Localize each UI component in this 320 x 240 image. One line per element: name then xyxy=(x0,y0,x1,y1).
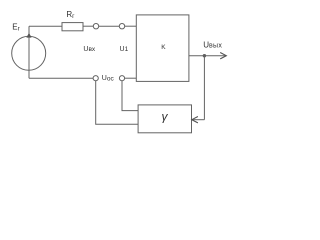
svg-text:Rг: Rг xyxy=(66,10,75,20)
svg-text:Uос: Uос xyxy=(102,75,115,82)
svg-text:Uвх: Uвх xyxy=(83,46,96,53)
svg-text:U1: U1 xyxy=(120,46,129,53)
svg-text:Eг: Eг xyxy=(12,23,20,33)
svg-text:γ: γ xyxy=(162,110,169,124)
svg-text:K: K xyxy=(161,44,166,51)
svg-text:Uвых: Uвых xyxy=(203,40,222,49)
